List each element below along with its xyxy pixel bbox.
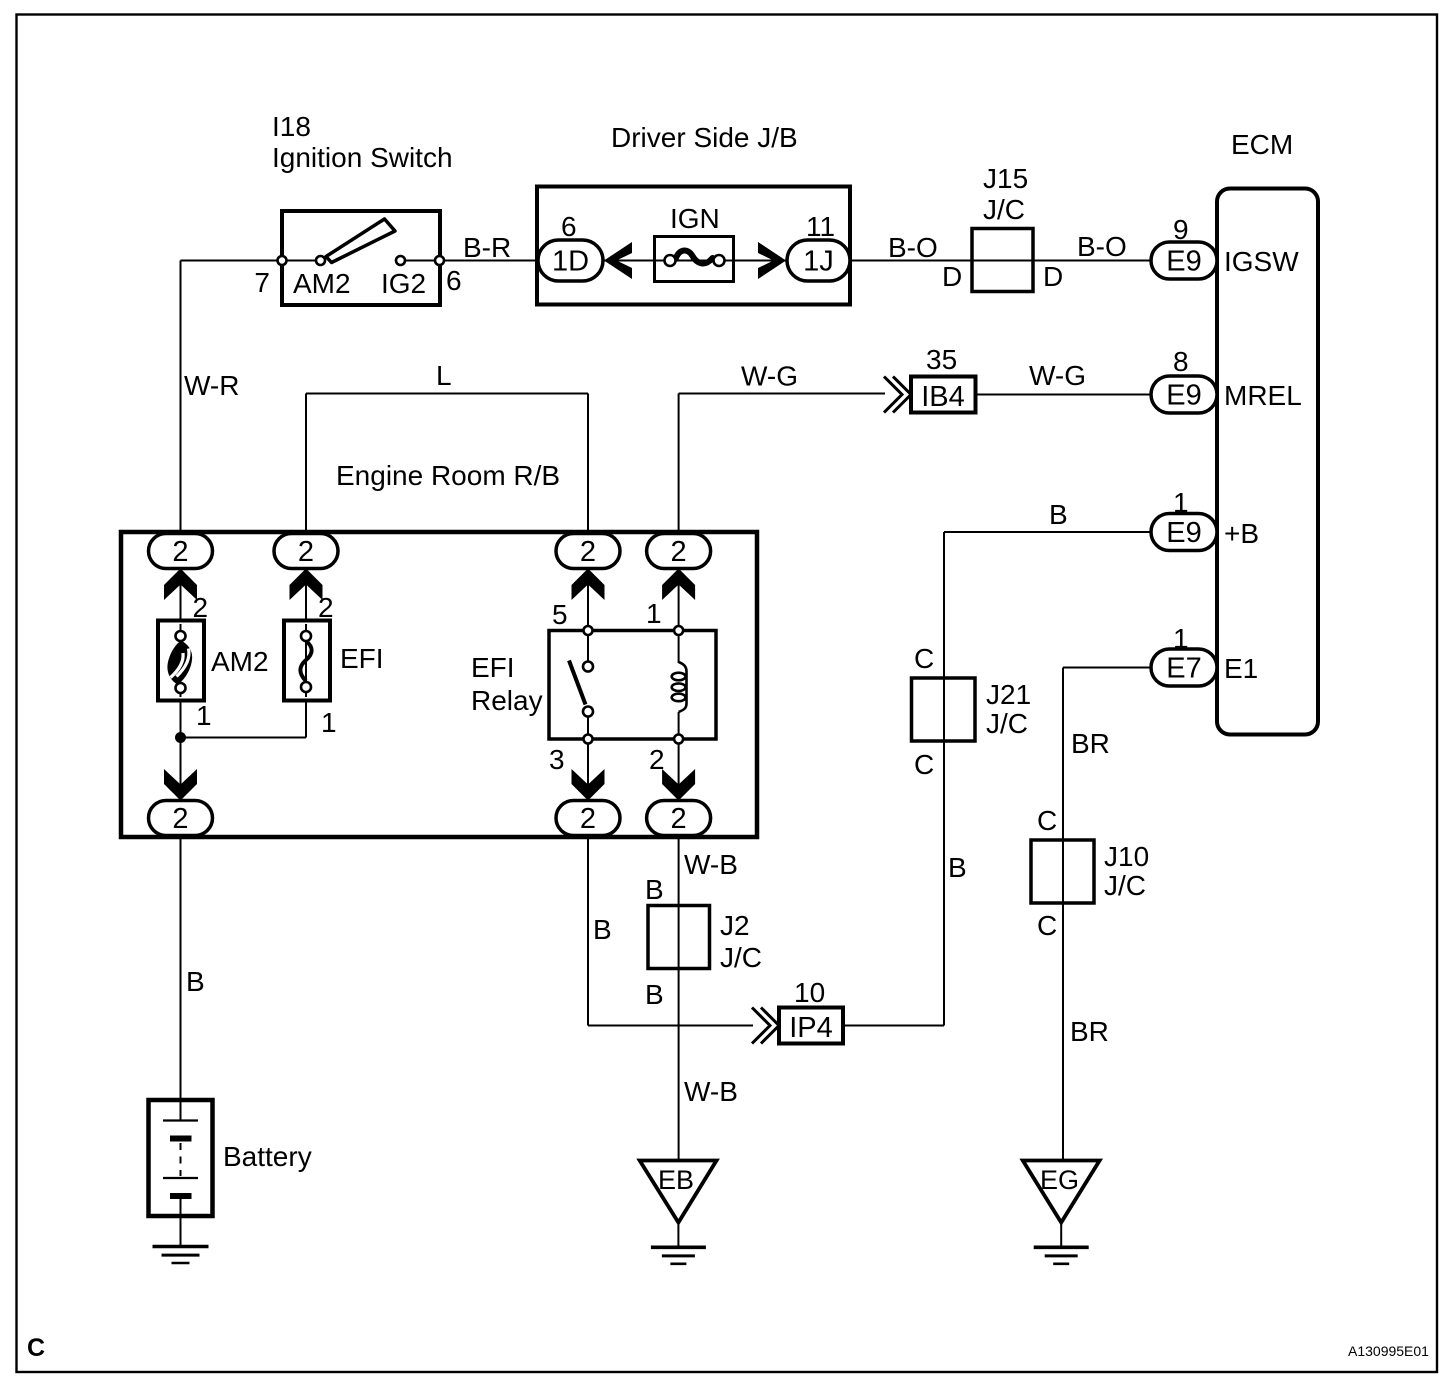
svg-text:2: 2: [580, 803, 596, 835]
svg-text:1D: 1D: [552, 246, 589, 278]
svg-text:J21: J21: [986, 679, 1031, 710]
pin 1 below EFI fuse: [321, 707, 337, 738]
label EFI fuse: [340, 643, 384, 674]
label J10 J/C: [1104, 841, 1149, 901]
wire label B-O (left): [888, 232, 938, 263]
fuse AM2: [158, 621, 204, 701]
connector 1D pin 6: [538, 211, 603, 281]
connector oval 2 (relay pin 5 top): [556, 534, 620, 569]
svg-text:B-O: B-O: [1077, 231, 1127, 262]
wire from IP4 right side to B riser: [843, 1025, 944, 1027]
wire label B (left riser): [593, 914, 612, 945]
wire label W-G (right): [1029, 360, 1086, 391]
wire B from AM2 fuse oval down to battery: [180, 836, 182, 1101]
junction connector J15 J/C: [972, 229, 1033, 292]
wire B from junction to ECM +B through J21 down to IP4 line: [944, 532, 1151, 1026]
pin D right: [1043, 261, 1063, 292]
up arrow (relay pin 5 top): [572, 569, 605, 601]
connector 1J pin 11: [787, 211, 850, 281]
svg-text:Driver Side J/B: Driver Side J/B: [611, 122, 798, 153]
svg-text:C: C: [1037, 805, 1057, 836]
wire: battery positive B-R/W-R feed from switch AM2 terminal: [181, 260, 317, 262]
fuse EFI: [284, 621, 330, 701]
down arrow (relay pin 3 bottom): [572, 769, 605, 801]
wire label W-B (upper): [684, 849, 738, 880]
pin C above J10: [1037, 805, 1057, 836]
pin C above J21: [914, 643, 934, 674]
svg-text:C: C: [914, 749, 934, 780]
connector E9 pin 8 MREL: [1151, 346, 1302, 413]
label Engine Room R/B: [336, 460, 560, 491]
wire label W-G (left): [741, 361, 798, 392]
wire B from relay pin 3 oval down then right to IP4: [588, 836, 753, 1026]
up arrow (EFI fuse top): [290, 569, 323, 601]
svg-text:W-B: W-B: [684, 1076, 738, 1107]
svg-text:1: 1: [196, 700, 212, 731]
svg-text:E9: E9: [1166, 517, 1201, 549]
svg-text:+B: +B: [1224, 518, 1259, 549]
pin 5 relay: [552, 599, 568, 630]
svg-text:IGSW: IGSW: [1224, 246, 1299, 277]
svg-text:A130995E01: A130995E01: [1348, 1343, 1429, 1359]
label IGN: [670, 203, 720, 234]
junction connector J2 J/C: [648, 906, 710, 969]
pin 7: [254, 267, 270, 298]
pin 1 relay: [646, 598, 662, 629]
label J21 J/C: [986, 679, 1031, 739]
svg-text:B: B: [645, 979, 664, 1010]
down arrow (relay pin 2 bottom): [662, 769, 695, 801]
wire BR from ECM E1 down through J10 to EG ground: [1063, 668, 1151, 1161]
label I18 Ignition Switch: [272, 111, 453, 173]
wire W-B from relay pin 2 oval down through J2 to EB ground: [678, 836, 680, 1161]
svg-text:1: 1: [646, 598, 662, 629]
svg-text:2: 2: [298, 536, 314, 568]
svg-text:2: 2: [580, 536, 596, 568]
Driver Side J/B box: [537, 187, 850, 305]
svg-text:L: L: [436, 360, 452, 391]
connector E7 pin 1 E1: [1151, 623, 1258, 686]
pin 2 relay: [649, 744, 665, 775]
connector oval 2 (AM2 fuse top): [149, 534, 213, 569]
svg-text:J/C: J/C: [720, 942, 762, 973]
ground EB: [640, 1161, 717, 1264]
svg-text:IP4: IP4: [789, 1012, 833, 1044]
pin B above J2: [645, 874, 664, 905]
svg-text:C: C: [27, 1334, 45, 1362]
ground (battery): [153, 1216, 209, 1263]
svg-text:B: B: [645, 874, 664, 905]
wire label BR (lower): [1070, 1016, 1109, 1047]
svg-text:2: 2: [318, 592, 334, 623]
svg-text:Engine Room R/B: Engine Room R/B: [336, 460, 560, 491]
svg-text:MREL: MREL: [1224, 380, 1302, 411]
wire L from EFI fuse oval up and across to relay pin 5 oval: [306, 394, 588, 546]
svg-text:B-O: B-O: [888, 232, 938, 263]
svg-text:W-B: W-B: [684, 849, 738, 880]
svg-text:ECM: ECM: [1231, 129, 1293, 160]
label AM2 fuse: [211, 646, 269, 677]
svg-text:2: 2: [172, 536, 188, 568]
connector E9 pin 9 IGSW: [1151, 214, 1299, 279]
arrow into 1D: [604, 242, 632, 279]
pin 35 label: [926, 344, 957, 375]
svg-text:6: 6: [561, 211, 577, 242]
svg-text:AM2: AM2: [211, 646, 269, 677]
wire label L: [436, 360, 452, 391]
svg-text:5: 5: [552, 599, 568, 630]
svg-text:B: B: [948, 852, 967, 883]
svg-text:2: 2: [671, 803, 687, 835]
label J15 J/C: [983, 163, 1028, 225]
svg-text:B: B: [1049, 499, 1068, 530]
terminal label IG2: [381, 268, 426, 299]
fuse IGN: [655, 237, 734, 282]
pin 2 above AM2 fuse: [193, 592, 209, 623]
wire W-G from relay pin 1 oval up/right to IB4 and on to ECM MREL: [679, 394, 1151, 546]
pin C below J21: [914, 749, 934, 780]
svg-text:1: 1: [321, 707, 337, 738]
wire EFI fuse vertical: [305, 568, 307, 738]
ECM box: [1217, 189, 1318, 735]
wire label B (J21 lower): [948, 852, 967, 883]
terminal label AM2: [293, 268, 351, 299]
arrow out to 1J: [758, 242, 786, 279]
pin 10 label: [794, 977, 825, 1008]
svg-text:IGN: IGN: [670, 203, 720, 234]
ground EG: [1023, 1161, 1100, 1264]
svg-text:1J: 1J: [803, 246, 834, 278]
svg-text:C: C: [1037, 910, 1057, 941]
svg-text:2: 2: [172, 803, 188, 835]
pin D left: [942, 261, 962, 292]
svg-text:2: 2: [649, 744, 665, 775]
ignition switch I18: [278, 211, 445, 305]
up arrow (relay pin 1 top): [662, 569, 695, 601]
svg-text:Ignition Switch: Ignition Switch: [272, 142, 453, 173]
svg-text:C: C: [914, 643, 934, 674]
svg-text:EG: EG: [1040, 1165, 1079, 1195]
wire: IG2 terminal through B-R, 1D, IGN fuse, 1J, B-O, J15 to ECM IGSW: [405, 260, 1151, 262]
down arrow (battery feed bottom): [164, 769, 197, 801]
wire relay pin 3 stub: [587, 739, 589, 802]
wire label B (+B feed): [1049, 499, 1068, 530]
label J2 J/C: [720, 910, 762, 973]
svg-text:7: 7: [254, 267, 270, 298]
svg-text:3: 3: [549, 744, 565, 775]
wire W-R vertical from switch feed down to Engine Room R/B: [180, 261, 182, 546]
wire relay pin 2 stub: [678, 739, 680, 802]
Engine Room R/B box: [121, 532, 757, 837]
svg-text:J/C: J/C: [1104, 870, 1146, 901]
svg-text:J/C: J/C: [986, 708, 1028, 739]
svg-text:BR: BR: [1071, 728, 1110, 759]
label Driver Side J/B: [611, 122, 798, 153]
label Battery: [223, 1141, 312, 1172]
connector IB4 pin 35: [884, 377, 976, 414]
svg-text:IB4: IB4: [921, 381, 965, 413]
svg-text:I18: I18: [272, 111, 311, 142]
wire relay pin 1 stub: [678, 568, 680, 631]
svg-text:B: B: [593, 914, 612, 945]
svg-text:Battery: Battery: [223, 1141, 312, 1172]
connector E9 pin 1 +B: [1151, 487, 1259, 551]
relay EFI Relay: [549, 626, 716, 744]
svg-text:11: 11: [806, 211, 835, 242]
svg-text:EFI: EFI: [340, 643, 384, 674]
wire label B-O (right): [1077, 231, 1127, 262]
label EFI Relay: [471, 652, 543, 716]
wire fuse outputs join: [181, 737, 307, 739]
svg-text:J2: J2: [720, 910, 750, 941]
battery: [149, 1100, 213, 1216]
pin 6: [446, 265, 462, 296]
connector oval 2 (relay pin 1 top): [647, 534, 711, 569]
svg-text:E9: E9: [1166, 246, 1201, 278]
svg-text:D: D: [942, 261, 962, 292]
svg-text:EB: EB: [658, 1165, 694, 1195]
connector oval 2 (battery feed bottom): [149, 801, 213, 836]
wire label B (battery): [186, 966, 205, 997]
svg-text:J/C: J/C: [983, 194, 1025, 225]
svg-text:D: D: [1043, 261, 1063, 292]
label ECM: [1231, 129, 1293, 160]
pin 3 relay: [549, 744, 565, 775]
page index C: [27, 1334, 45, 1362]
svg-text:AM2: AM2: [293, 268, 351, 299]
svg-text:EFI: EFI: [471, 652, 515, 683]
svg-text:BR: BR: [1070, 1016, 1109, 1047]
pin B below J2: [645, 979, 664, 1010]
svg-text:Relay: Relay: [471, 685, 543, 716]
svg-text:2: 2: [193, 592, 209, 623]
svg-text:W-G: W-G: [741, 361, 798, 392]
pin 1 below AM2 fuse: [196, 700, 212, 731]
svg-text:10: 10: [794, 977, 825, 1008]
up arrow (AM2 fuse top): [164, 569, 197, 601]
svg-text:J15: J15: [983, 163, 1028, 194]
svg-text:E1: E1: [1224, 653, 1258, 684]
svg-text:35: 35: [926, 344, 957, 375]
wire label W-R: [184, 370, 239, 401]
junction dot: [175, 732, 186, 743]
svg-text:8: 8: [1173, 346, 1189, 377]
wire AM2 fuse vertical: [180, 568, 182, 802]
svg-text:6: 6: [446, 265, 462, 296]
wire label BR (upper): [1071, 728, 1110, 759]
drawing number A130995E01: [1348, 1343, 1429, 1359]
junction connector J10 J/C: [1031, 840, 1094, 903]
wire label B-R: [463, 232, 511, 263]
junction connector J21 J/C: [912, 678, 976, 741]
svg-text:2: 2: [671, 536, 687, 568]
svg-text:W-R: W-R: [184, 370, 239, 401]
connector oval 2 (EFI fuse top): [274, 534, 338, 569]
connector IP4 pin 10: [752, 1008, 843, 1045]
svg-text:B-R: B-R: [463, 232, 511, 263]
pin C below J10: [1037, 910, 1057, 941]
svg-text:W-G: W-G: [1029, 360, 1086, 391]
svg-text:E7: E7: [1166, 653, 1201, 685]
svg-text:B: B: [186, 966, 205, 997]
svg-text:J10: J10: [1104, 841, 1149, 872]
connector oval 2 (relay pin 2 bottom): [647, 801, 711, 836]
wire relay pin 5 stub: [587, 568, 589, 631]
svg-text:IG2: IG2: [381, 268, 426, 299]
svg-text:E9: E9: [1166, 380, 1201, 412]
pin 2 above EFI fuse: [318, 592, 334, 623]
wire label W-B (lower): [684, 1076, 738, 1107]
connector oval 2 (relay pin 3 bottom): [556, 801, 620, 836]
